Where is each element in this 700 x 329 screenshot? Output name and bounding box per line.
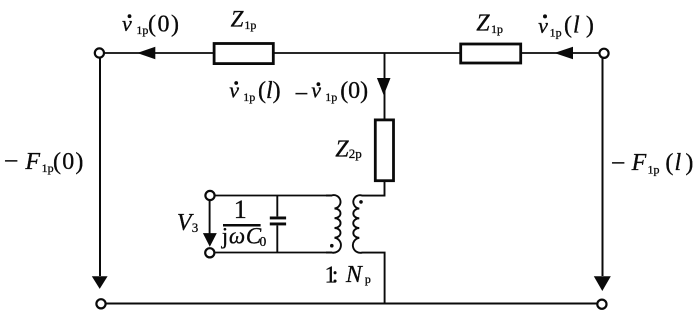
svg-text:): ) [586, 13, 594, 39]
wire top rail middle segment [273, 52, 461, 54]
polarity dot secondary [359, 200, 363, 204]
arrow force F1p(l) pointing down [594, 276, 611, 291]
svg-text:(: ( [564, 13, 572, 39]
terminal bottom-right [597, 300, 606, 309]
svg-text:v: v [538, 13, 548, 38]
capacitor C0 bottom stem [276, 226, 278, 253]
terminal V3 plus [205, 191, 214, 200]
svg-text:−: − [4, 146, 19, 175]
svg-text:Z: Z [476, 11, 490, 37]
svg-text:l: l [573, 13, 580, 39]
svg-text:N: N [345, 262, 364, 288]
svg-text:1p: 1p [244, 18, 256, 32]
polarity dot primary [330, 244, 334, 248]
wire top rail left segment [105, 52, 214, 54]
svg-text::: : [332, 262, 339, 288]
svg-text:1p: 1p [325, 90, 337, 104]
resistor Z1p right [461, 44, 521, 63]
bottom rail wire [107, 303, 597, 305]
svg-text:1p: 1p [42, 161, 54, 175]
svg-text:3: 3 [192, 220, 199, 235]
svg-text:1p: 1p [243, 90, 255, 104]
right rail wire [602, 58, 604, 276]
svg-text:1p: 1p [136, 23, 148, 37]
svg-text:F: F [24, 149, 40, 175]
left rail wire [99, 58, 101, 276]
arrow V3 head pointing down [203, 233, 217, 247]
resistor Z1p left [214, 44, 273, 64]
svg-text:(0): (0) [148, 12, 180, 38]
label fraction bar [223, 224, 261, 227]
svg-text:1p: 1p [648, 163, 660, 177]
svg-text:v: v [311, 78, 321, 103]
wire V3 bottom [215, 252, 332, 254]
transformer primary winding [326, 195, 341, 253]
wire top rail right segment [520, 52, 599, 54]
impedance Z2p [375, 120, 393, 181]
svg-text:2p: 2p [349, 146, 362, 161]
svg-text:1p: 1p [550, 25, 562, 39]
terminal top-right [599, 49, 608, 58]
wire V3 top [215, 195, 332, 197]
arrow velocity v1p(l) pointing left [554, 47, 573, 59]
arrow force F1p(0) pointing down [92, 276, 108, 289]
svg-text:Z: Z [335, 137, 349, 163]
svg-text:p: p [365, 272, 371, 286]
svg-text:v: v [122, 11, 132, 36]
terminal top-left [95, 48, 104, 57]
label v1p(l)-v1p(0) dot 1 [234, 81, 238, 85]
svg-text:v: v [229, 78, 239, 103]
terminal bottom-left [96, 299, 105, 308]
svg-text:l: l [675, 150, 682, 176]
svg-text:−: − [611, 148, 626, 177]
svg-text:(l): (l) [258, 78, 281, 104]
capacitor C0 top plate [270, 217, 286, 220]
arrow velocity v1p(0) pointing left [137, 47, 155, 59]
capacitor C0 top stem [276, 196, 278, 217]
svg-text:1: 1 [234, 195, 247, 224]
label v1p(0) dot [128, 14, 132, 18]
svg-text:(0): (0) [340, 78, 368, 104]
wire middle branch upper [384, 53, 386, 119]
svg-text:(0): (0) [53, 149, 85, 175]
label v1p(l) dot [543, 14, 547, 18]
svg-text:−: − [294, 81, 308, 108]
svg-text:jωC: jωC [221, 224, 262, 249]
svg-text:): ) [685, 150, 693, 176]
svg-text:0: 0 [260, 234, 267, 249]
svg-text:(: ( [665, 150, 673, 176]
svg-text:1p: 1p [491, 22, 503, 36]
arrow velocity difference pointing down [377, 78, 391, 95]
capacitor C0 bottom plate [270, 223, 286, 226]
arrow V3 shaft [209, 201, 211, 234]
terminal V3 minus [205, 248, 214, 257]
svg-text:F: F [631, 150, 647, 176]
svg-text:Z: Z [231, 7, 244, 32]
label v1p(l)-v1p(0) dot 2 [317, 82, 321, 86]
transformer secondary winding with leads [353, 181, 385, 304]
